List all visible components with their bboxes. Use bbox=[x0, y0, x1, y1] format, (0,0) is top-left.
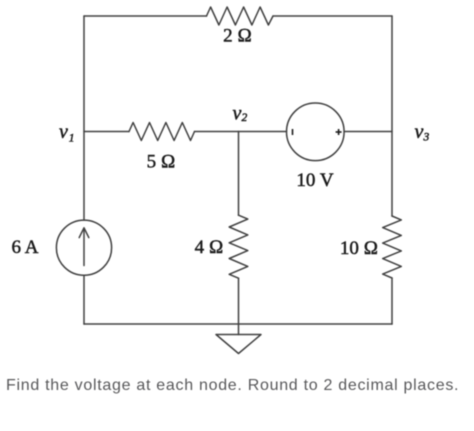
wire top-left vertical segment (node v1 rail upper) bbox=[83, 16, 85, 220]
wire left vertical lower segment bbox=[83, 275, 85, 324]
current source arrow (pointing up) bbox=[83, 230, 85, 266]
wire right vertical upper segment bbox=[391, 16, 393, 216]
wire top horizontal left of R (2 ohm) bbox=[84, 15, 207, 17]
wire right vertical lower segment bbox=[391, 278, 393, 324]
wire voltage source to v3 rail bbox=[344, 131, 392, 133]
svg-text:1: 1 bbox=[69, 132, 75, 144]
svg-text:v: v bbox=[415, 121, 424, 143]
ground stub bbox=[238, 324, 240, 335]
wire middle from 5 ohm to node v2 bbox=[195, 131, 239, 133]
svg-text:v: v bbox=[233, 103, 242, 125]
voltage source V1 10V circle bbox=[287, 103, 345, 161]
wire top horizontal right of R bbox=[273, 15, 392, 17]
svg-text:v: v bbox=[59, 121, 68, 143]
svg-text:2 Ω: 2 Ω bbox=[223, 26, 252, 47]
wire node v2 to voltage source bbox=[239, 131, 287, 133]
wire 4 ohm to bottom rail bbox=[238, 278, 240, 324]
svg-text:5 Ω: 5 Ω bbox=[147, 152, 176, 173]
current source I1 6A circle bbox=[56, 220, 111, 275]
svg-text:10 V: 10 V bbox=[296, 170, 333, 191]
resistor 4 ohm (middle vertical) bbox=[229, 215, 248, 278]
voltage source plus terminal mark bbox=[336, 129, 342, 135]
ground triangle bbox=[216, 335, 261, 354]
resistor 2 ohm (top) bbox=[207, 7, 274, 25]
svg-text:4 Ω: 4 Ω bbox=[195, 237, 224, 258]
caption question text bbox=[6, 377, 459, 395]
svg-text:2: 2 bbox=[242, 112, 248, 124]
wire bottom rail bbox=[84, 323, 392, 325]
voltage source minus terminal mark bbox=[292, 129, 294, 135]
svg-text:6 A: 6 A bbox=[12, 237, 39, 258]
wire middle left segment (v1 to 5 ohm) bbox=[84, 131, 129, 133]
svg-text:3: 3 bbox=[423, 132, 430, 144]
wire middle branch vertical (v2 down to 4 ohm) bbox=[238, 132, 240, 216]
svg-text:10 Ω: 10 Ω bbox=[340, 238, 378, 259]
resistor 5 ohm (middle) bbox=[129, 123, 195, 141]
resistor 10 ohm (right vertical) bbox=[383, 216, 402, 278]
